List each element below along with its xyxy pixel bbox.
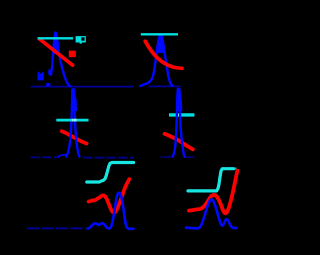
middle-left blue spike — [66, 89, 79, 156]
middle-right floor left piece — [161, 156, 172, 158]
middle-right floor right piece — [184, 156, 194, 158]
top-right blue peak solid core — [158, 36, 165, 54]
top-left baseline (dark blue axis floor) — [31, 86, 135, 88]
bottom-right blue curve floor and peaks — [186, 199, 237, 228]
middle-left cyan line bright crossing spot — [72, 119, 77, 122]
top-left cyan label glyph — [76, 36, 86, 42]
middle-left blue spike solid core — [71, 89, 77, 111]
top-left red Te line — [39, 39, 72, 65]
top-left cyan density line — [38, 37, 73, 39]
top-left blue distribution curve noisy left wing blob — [38, 72, 44, 81]
bottom-left red temperature curve — [89, 179, 130, 213]
top-right baseline (dark blue axis floor) — [149, 85, 181, 87]
bottom-left blue curve with bump and peak — [88, 193, 134, 229]
bottom-left cyan step profile — [87, 163, 134, 183]
top-right red Te curve — [145, 41, 182, 68]
top-left blue distribution peak — [51, 32, 70, 86]
middle-left blue spike shoulder — [58, 155, 67, 157]
bottom-right cyan tip dot — [235, 168, 237, 170]
middle-right blue spike — [173, 89, 185, 157]
middle-left dashed floor left part — [31, 156, 60, 158]
top-left wing floor step — [46, 83, 50, 86]
bottom-left dashed blue floor — [27, 227, 88, 229]
top-left blue peak solid core — [53, 33, 59, 54]
middle-right cyan line — [169, 113, 194, 116]
middle-left red segment — [62, 131, 87, 143]
middle-right blue spike solid core — [177, 89, 182, 112]
bottom-right cyan step profile — [188, 169, 234, 191]
top-right blue distribution curve — [140, 35, 172, 86]
bottom-right red temperature curve — [189, 171, 237, 214]
top-left wing staircase block — [48, 70, 51, 75]
middle-right cyan line bright crossing spot — [177, 113, 181, 116]
top-right cyan density line — [141, 33, 178, 35]
top-left red label block — [69, 51, 76, 58]
middle-left cyan line — [56, 119, 88, 122]
middle-right red segment — [165, 134, 193, 150]
middle-left dashed floor right part — [83, 157, 134, 159]
